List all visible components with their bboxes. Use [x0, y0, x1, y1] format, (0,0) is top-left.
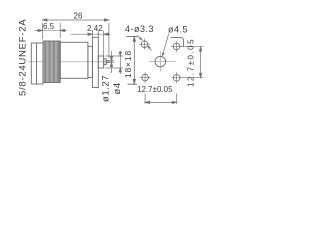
hole top-left [139, 39, 150, 50]
hole bottom-right [171, 72, 182, 83]
dim 6.5 [35, 23, 68, 38]
leader 4-dia3.3 [137, 35, 151, 50]
svg-text:12.7±0.05: 12.7±0.05 [137, 85, 173, 94]
dim 18x18 line with arrows [133, 37, 135, 85]
connector body [60, 42, 88, 78]
center circle dia 4.5 [155, 56, 166, 67]
dim 12.7 right [181, 47, 204, 78]
dim 26 [43, 19, 109, 58]
centerline side view [28, 61, 114, 63]
coupling nut [31, 43, 43, 84]
flange square outline [127, 37, 184, 85]
svg-text:4-ø3.3: 4-ø3.3 [125, 24, 154, 34]
center pin [106, 61, 109, 63]
neck [88, 46, 93, 77]
svg-text:2: 2 [98, 24, 103, 33]
rear shoulder [98, 56, 103, 68]
svg-text:6.5: 6.5 [43, 22, 55, 31]
hole top-right [171, 41, 182, 52]
leader dia 4.5 [162, 34, 169, 57]
hole bottom-left [140, 72, 151, 83]
flange centerlines [149, 51, 176, 72]
svg-text:ø1.27: ø1.27 [101, 75, 112, 102]
dim 2.4 and 2 [71, 31, 111, 56]
dim dia 4 [106, 51, 124, 74]
svg-text:ø4.5: ø4.5 [168, 25, 188, 35]
svg-text:5/8-24UNEF-2A: 5/8-24UNEF-2A [18, 19, 29, 96]
flange plate side view [92, 37, 98, 87]
dim 12.7 bottom [145, 94, 177, 104]
threaded barrel [43, 41, 60, 83]
dim pin dia 1.27 [110, 51, 114, 73]
svg-text:ø4: ø4 [112, 82, 123, 94]
svg-text:2.4: 2.4 [87, 24, 99, 33]
svg-text:26: 26 [74, 12, 83, 21]
svg-text:18×18: 18×18 [123, 50, 133, 78]
svg-text:12.7±0.05: 12.7±0.05 [187, 38, 196, 87]
insulator step [104, 59, 107, 65]
